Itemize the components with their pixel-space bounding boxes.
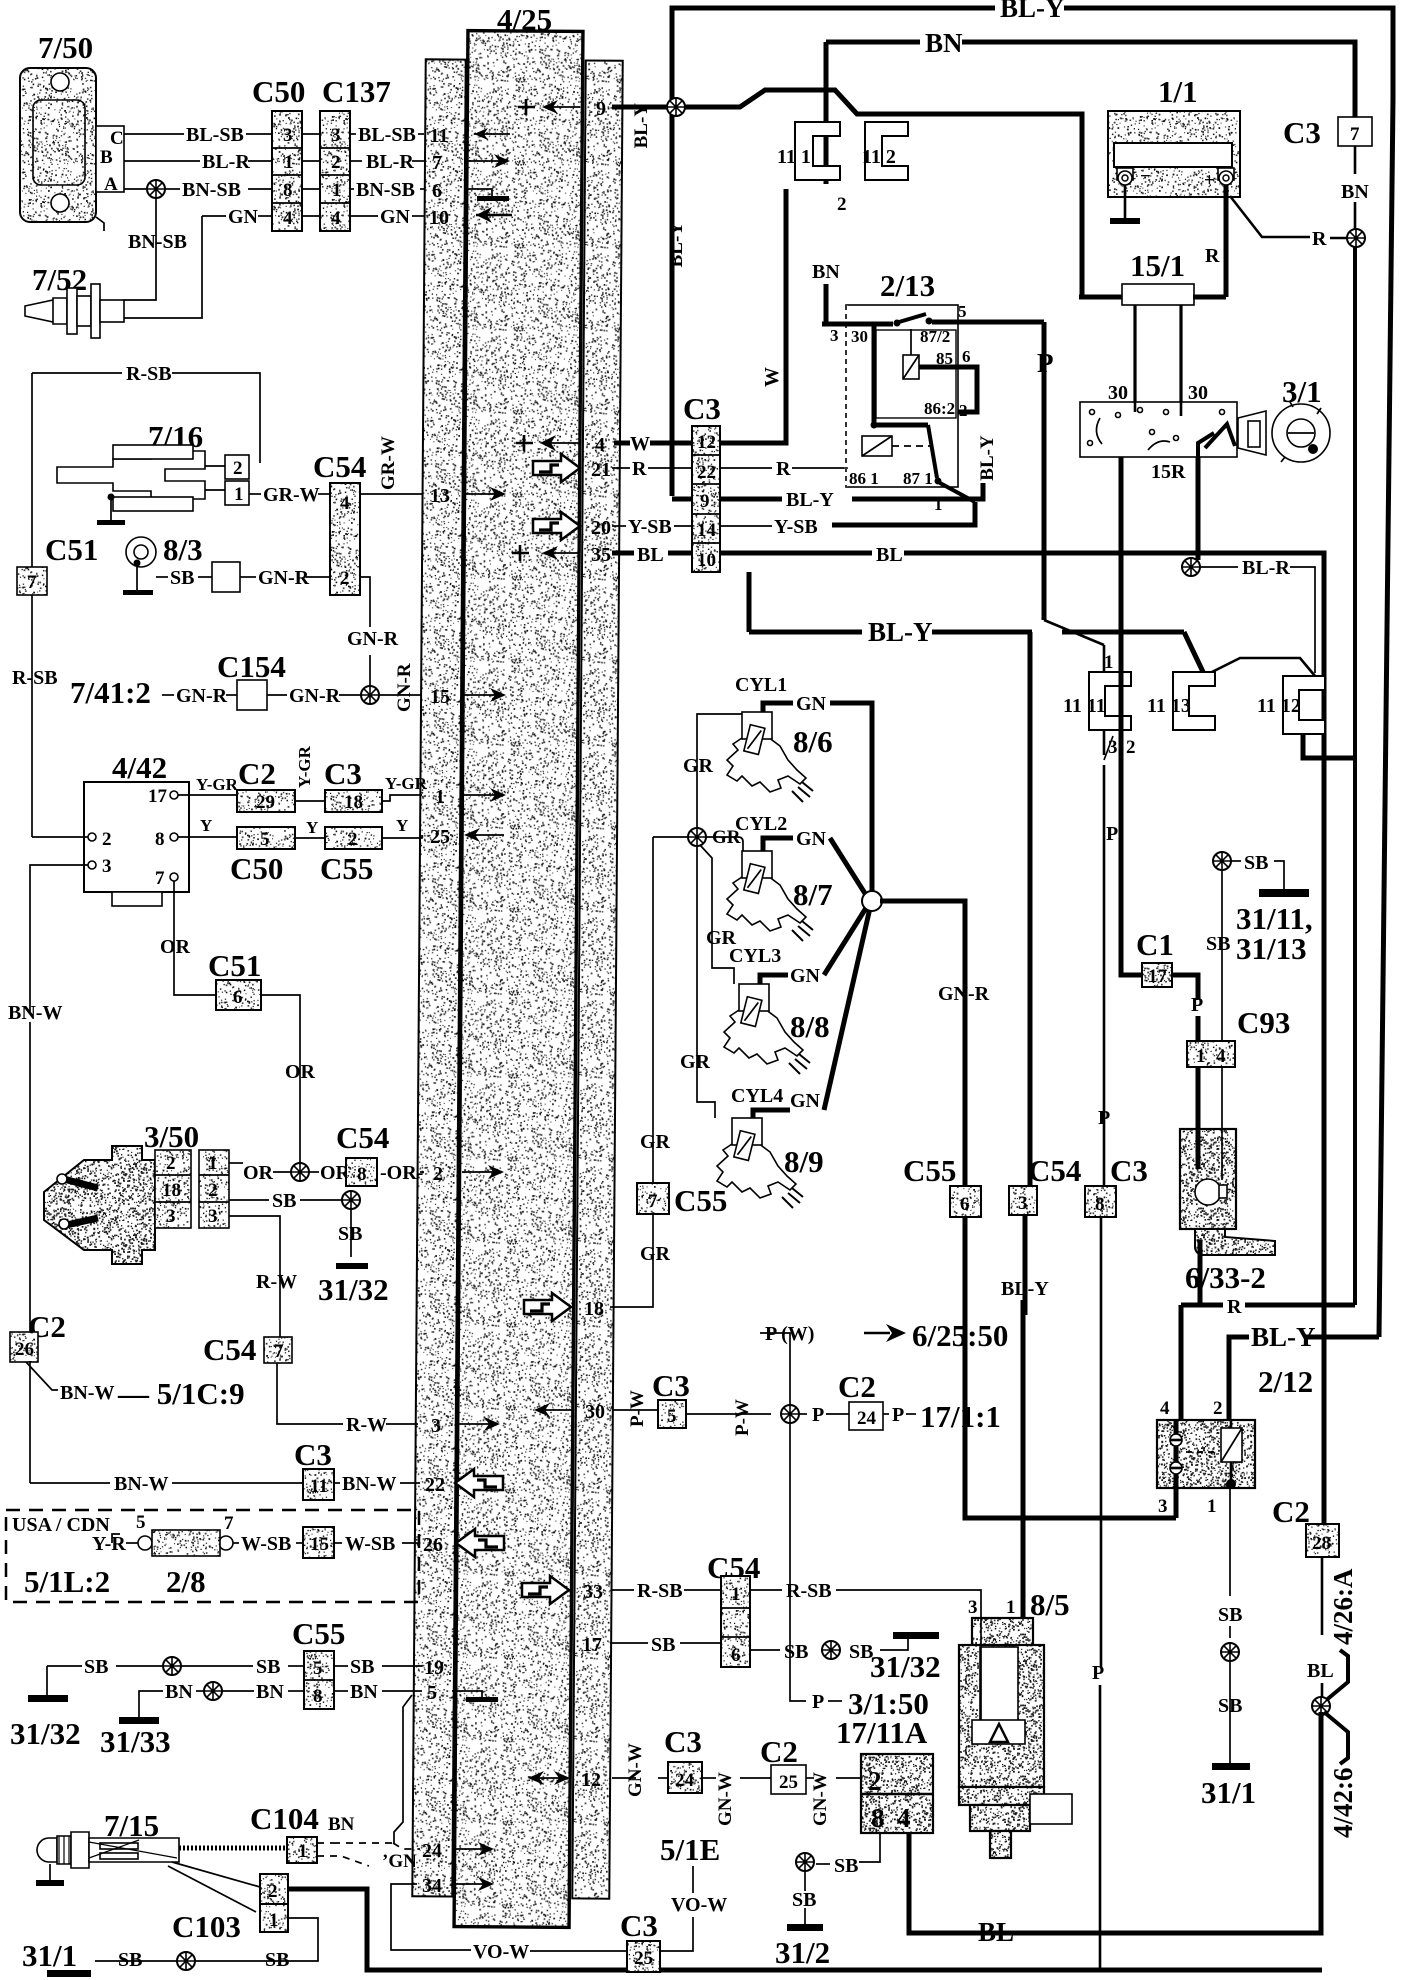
wire GN CYL4 xyxy=(753,1110,790,1118)
svg-text:BL-Y: BL-Y xyxy=(977,435,998,481)
wire SB 2/12 pin1 to ground 31/1 xyxy=(1229,1488,1231,1596)
svg-text:P: P xyxy=(892,1404,904,1426)
relay 2/13 coil upper xyxy=(903,355,919,379)
svg-text:P: P xyxy=(1106,823,1118,845)
wire P-W pin30 to C3-5 xyxy=(612,1409,658,1411)
svg-text:GR-W: GR-W xyxy=(263,484,320,506)
svg-text:7/50: 7/50 xyxy=(38,30,93,65)
wire R C3-22 to relay 2/13 xyxy=(720,467,772,469)
svg-text:R-W: R-W xyxy=(346,1414,387,1436)
wire BL-Y top rail xyxy=(672,8,995,496)
wire BN-W C3 to pin 22 xyxy=(334,1482,340,1484)
ground 31/32 xyxy=(893,1632,939,1639)
connector C54 strip xyxy=(330,483,360,595)
svg-text:28: 28 xyxy=(1312,1533,1331,1554)
fuse 2/8 xyxy=(138,1536,152,1550)
svg-text:1: 1 xyxy=(208,1153,218,1174)
svg-text:— 5/1C:9: — 5/1C:9 xyxy=(117,1376,245,1411)
svg-text:8: 8 xyxy=(871,1803,885,1833)
svg-text:1: 1 xyxy=(234,484,244,505)
svg-text:6: 6 xyxy=(962,347,971,366)
svg-text:GN-W: GN-W xyxy=(625,1743,646,1797)
svg-text:7: 7 xyxy=(274,1341,284,1362)
svg-text:25: 25 xyxy=(779,1772,798,1793)
wire SB pin 17 to C54 xyxy=(610,1642,648,1644)
svg-text:3: 3 xyxy=(968,1597,978,1618)
wire Y-GR C3 to pin 1 xyxy=(382,795,422,801)
svg-text:21: 21 xyxy=(591,459,611,481)
wire BN-W to C3 pin 11 xyxy=(30,1482,110,1484)
svg-text:7: 7 xyxy=(27,572,37,593)
relay 2/13 85 wire xyxy=(919,367,977,412)
wire GR junction left xyxy=(653,836,688,838)
sender 8/3 body xyxy=(126,537,156,567)
wires C50 to C137 xyxy=(302,134,320,216)
wire GN CYL1 xyxy=(763,703,793,712)
key 3/1 bow xyxy=(1238,411,1266,455)
junction P xyxy=(781,1405,799,1423)
wire GR junction down to CYL3 CYL4 xyxy=(697,846,715,1118)
junction OR xyxy=(291,1163,309,1181)
wire GN-R to C154 xyxy=(162,694,174,696)
relay 2/13 87/1 contact xyxy=(928,425,937,478)
svg-text:2/12: 2/12 xyxy=(1258,1364,1313,1399)
svg-text:BL: BL xyxy=(978,1917,1014,1947)
wire BL down to C2-28 xyxy=(1323,1525,1326,1528)
wire P through 11/11 xyxy=(1119,457,1124,732)
ECU left connector strip xyxy=(412,59,465,1896)
svg-text:7: 7 xyxy=(648,1191,658,1212)
connector C51 pin 7 xyxy=(17,567,47,595)
connector C50 strip xyxy=(272,111,302,231)
wire R junction down right side xyxy=(1353,247,1357,1305)
wire GN-R C54 down to junction xyxy=(360,577,370,627)
svg-text:2: 2 xyxy=(268,1881,278,1902)
wire 11/12 down to R line xyxy=(1303,734,1355,758)
wire GN CYL3 xyxy=(760,975,788,984)
wire BL-Y C3-9 to relay 87/1 xyxy=(720,497,782,502)
svg-text:W-SB: W-SB xyxy=(345,1533,395,1555)
injection valve 8/5 wires inside xyxy=(980,1618,982,1724)
wire VO-W C3-25 to 5/1E xyxy=(660,1917,693,1951)
junction BL xyxy=(1312,1697,1330,1715)
svg-text:GR-W: GR-W xyxy=(378,436,399,490)
wire GR-W 7/16 to C54 pin4 xyxy=(249,493,261,495)
wire BL-Y C3 column down xyxy=(747,572,752,632)
svg-text:P: P xyxy=(1098,1107,1110,1129)
3/50 pin column B xyxy=(199,1150,229,1228)
svg-text:SB: SB xyxy=(84,1656,108,1678)
svg-text:5: 5 xyxy=(958,302,967,321)
svg-text:8: 8 xyxy=(283,180,293,201)
svg-text:2: 2 xyxy=(208,1180,218,1201)
connector C3 column boxes 12 22 9 14 10 xyxy=(692,426,720,572)
connector 11/12 xyxy=(1283,676,1325,734)
svg-text:14: 14 xyxy=(697,520,717,541)
svg-text:SB: SB xyxy=(784,1641,808,1663)
svg-text:1: 1 xyxy=(435,786,445,808)
svg-text:7/52: 7/52 xyxy=(32,262,87,297)
wire Y-SB C3-14 to relay xyxy=(720,525,772,527)
svg-text:15R: 15R xyxy=(1151,461,1186,483)
wire SB 3/50 pin2 to junction xyxy=(229,1199,269,1201)
7/16 pin 1 box xyxy=(225,481,249,505)
svg-text:29: 29 xyxy=(256,792,275,813)
fuel pump 6/33-2 body xyxy=(1180,1129,1236,1229)
svg-text:GR: GR xyxy=(640,1243,671,1265)
svg-text:3: 3 xyxy=(102,856,112,877)
wire R-SB C54-1 to 8/5 pin3 xyxy=(750,1589,782,1591)
svg-text:C3: C3 xyxy=(683,391,721,426)
svg-text:Y: Y xyxy=(396,816,408,835)
svg-text:R: R xyxy=(776,458,791,480)
svg-text:1: 1 xyxy=(1006,1597,1016,1618)
wire OR 4/42 pin7 down to C51 xyxy=(174,881,216,995)
wire P-W C3-5 to junction xyxy=(686,1413,771,1415)
connector C2 pin 28 xyxy=(1306,1524,1339,1557)
oxygen sensor 7/15 body xyxy=(37,1838,57,1862)
svg-text:1: 1 xyxy=(332,180,342,201)
svg-text:GR: GR xyxy=(640,1131,671,1153)
svg-text:BN-SB: BN-SB xyxy=(356,179,415,201)
injection valve 8/5 lower parts xyxy=(959,1787,1044,1805)
svg-text:1: 1 xyxy=(934,495,943,514)
svg-text:SB: SB xyxy=(1244,852,1268,874)
svg-text:8/7: 8/7 xyxy=(793,877,833,912)
ignition sensor 3/50 body xyxy=(44,1146,155,1264)
relay 2/13 inner contact box xyxy=(876,330,956,418)
svg-text:3: 3 xyxy=(1158,1496,1168,1517)
svg-text:BN: BN xyxy=(165,1681,193,1703)
svg-text:-OR-: -OR- xyxy=(380,1162,423,1184)
svg-text:SB: SB xyxy=(1218,1604,1242,1626)
ground 31/32 left xyxy=(46,1666,48,1695)
ECU right connector strip xyxy=(572,60,622,1898)
ground 31/1 xyxy=(1212,1763,1250,1770)
wire BN-SB C137 to pin 6 xyxy=(350,188,354,190)
wire BN C3-7 down xyxy=(1354,146,1357,174)
svg-text:26: 26 xyxy=(423,1534,443,1556)
ground 31/33 xyxy=(119,1717,159,1724)
svg-text:GN-R: GN-R xyxy=(176,685,228,707)
svg-text:SB: SB xyxy=(1206,933,1230,955)
svg-text:2/8: 2/8 xyxy=(166,1564,206,1599)
svg-text:8: 8 xyxy=(357,1164,367,1185)
svg-text:4/26:A: 4/26:A xyxy=(1328,1568,1358,1645)
svg-text:8/5: 8/5 xyxy=(1030,1587,1070,1622)
svg-text:GN-W: GN-W xyxy=(715,1772,736,1826)
connector C2 pin 29 xyxy=(237,790,295,812)
shield wire C103 to bottom run xyxy=(288,1889,1322,1970)
ground 31/11 31/13 xyxy=(1259,889,1309,897)
svg-text:6/25:50: 6/25:50 xyxy=(912,1318,1008,1353)
svg-text:BL-Y: BL-Y xyxy=(1001,1278,1049,1300)
svg-text:31/1: 31/1 xyxy=(22,1938,77,1973)
connector C54 pin 3 xyxy=(1009,1186,1037,1215)
svg-text:9: 9 xyxy=(700,491,710,512)
injection valve 8/5 top cap xyxy=(972,1618,1033,1646)
svg-text:30: 30 xyxy=(1108,382,1128,404)
svg-text:A: A xyxy=(104,174,118,195)
junction BL-R xyxy=(1182,558,1200,576)
svg-text:C2: C2 xyxy=(760,1734,798,1769)
wire GN-W C2-25 to 17/11A xyxy=(806,1777,814,1779)
svg-text:11: 11 xyxy=(310,1476,328,1497)
svg-text:1: 1 xyxy=(1104,652,1114,673)
svg-text:2: 2 xyxy=(340,568,350,589)
wire SB chain to C55 pin5 xyxy=(47,1665,82,1667)
injection valve 8/5 body xyxy=(959,1645,1044,1787)
svg-text:17: 17 xyxy=(1148,966,1168,987)
svg-text:BL-R: BL-R xyxy=(366,151,414,173)
svg-text:6: 6 xyxy=(960,1194,970,1215)
svg-text:17: 17 xyxy=(148,786,168,807)
svg-text:R: R xyxy=(632,458,647,480)
svg-text:15: 15 xyxy=(430,686,450,708)
wire R-SB left vertical xyxy=(31,373,33,567)
unit 17/11A box xyxy=(861,1754,933,1833)
svg-text:26: 26 xyxy=(15,1339,34,1360)
wire BL-R to 11/12 xyxy=(1200,566,1238,568)
svg-text:R: R xyxy=(1227,1296,1242,1318)
svg-text:BN: BN xyxy=(328,1814,355,1835)
svg-text:24: 24 xyxy=(675,1770,695,1791)
wire BN-W 4/42 pin3 down-left xyxy=(30,865,88,1012)
svg-text:22: 22 xyxy=(425,1474,445,1496)
wire R-SB top loop xyxy=(32,372,122,374)
wire W C3-12 up to 11/1 xyxy=(720,189,786,443)
svg-text:P-W: P-W xyxy=(627,1390,648,1427)
svg-text:C54: C54 xyxy=(203,1332,256,1367)
connector 11/1 xyxy=(795,122,840,180)
4/42 pin 2 xyxy=(88,833,96,841)
svg-text:6: 6 xyxy=(432,180,442,202)
wire BL 17/11A pin4 down to rail xyxy=(909,1833,972,1933)
svg-text:C3: C3 xyxy=(294,1437,332,1472)
svg-text:CYL3: CYL3 xyxy=(729,945,781,967)
relay 2/13 outline xyxy=(846,305,958,487)
svg-text:CYL4: CYL4 xyxy=(731,1085,783,1107)
wire R down to 2/12 pin4 xyxy=(1179,1305,1184,1420)
wire BL junction down to bottom rail xyxy=(909,1712,1321,1933)
connector 11/13 xyxy=(1173,672,1215,730)
wire BL-SB C137 to pin 11 xyxy=(350,133,356,135)
connector C93 box 1 4 xyxy=(1187,1041,1235,1067)
svg-text:4: 4 xyxy=(595,434,605,456)
svg-text:Y-GR: Y-GR xyxy=(196,775,239,794)
svg-text:P-W: P-W xyxy=(732,1399,753,1436)
wire P (W) branch up to 6/25:50 xyxy=(760,1333,790,1405)
svg-text:1: 1 xyxy=(269,1910,279,1931)
svg-text:2: 2 xyxy=(166,1153,176,1174)
wire P 11/11 down to C1 xyxy=(1121,732,1142,975)
svg-text:C154: C154 xyxy=(217,649,286,684)
svg-text:4/42: 4/42 xyxy=(112,750,167,785)
svg-text:6: 6 xyxy=(731,1645,741,1666)
connector C154 box xyxy=(237,680,267,710)
connector C2 pin 26 xyxy=(10,1332,38,1362)
wire GR-W C54 to pin 13 xyxy=(360,493,422,495)
svg-text:W: W xyxy=(761,367,783,387)
svg-text:20: 20 xyxy=(591,517,611,539)
svg-text:GN-R: GN-R xyxy=(347,628,399,650)
svg-text:BN: BN xyxy=(812,261,840,283)
sensor 7/52 body xyxy=(25,298,67,324)
connector C104 pin 1 xyxy=(287,1837,317,1863)
svg-text:24: 24 xyxy=(857,1408,877,1429)
svg-text:31/32: 31/32 xyxy=(318,1272,389,1307)
svg-text:BN: BN xyxy=(350,1681,378,1703)
svg-text:4: 4 xyxy=(283,208,293,229)
svg-text:R: R xyxy=(1205,245,1220,267)
svg-text:−: − xyxy=(1140,166,1151,187)
svg-text:SB: SB xyxy=(350,1656,374,1678)
svg-text:8/8: 8/8 xyxy=(790,1009,830,1044)
svg-text:Y-SB: Y-SB xyxy=(628,516,672,538)
relay 2/12 coil xyxy=(1221,1428,1242,1462)
svg-text:CYL1: CYL1 xyxy=(735,674,787,696)
svg-text:P (W): P (W) xyxy=(765,1323,814,1345)
svg-text:GN: GN xyxy=(380,206,411,228)
connector C3 pin 7 xyxy=(1338,117,1372,146)
wire SB C55 to pin 19 xyxy=(334,1665,348,1667)
7/15 ground xyxy=(49,1864,51,1880)
svg-text:5: 5 xyxy=(313,1658,323,1679)
wire VO-W pin34 to C3 pin25 xyxy=(391,1884,471,1950)
svg-text:BN: BN xyxy=(925,28,963,58)
svg-text:OR: OR xyxy=(243,1162,274,1184)
svg-text:BL-SB: BL-SB xyxy=(358,124,416,146)
junction SB 31/2 xyxy=(796,1853,814,1871)
svg-text:C50: C50 xyxy=(230,851,283,886)
svg-text:31/1: 31/1 xyxy=(1201,1775,1256,1810)
wire Y-R xyxy=(112,1534,120,1543)
wire P junction to C2-24 xyxy=(799,1413,807,1415)
svg-text:C3: C3 xyxy=(1283,115,1321,150)
svg-text:C51: C51 xyxy=(45,532,98,567)
svg-text:4/42:6: 4/42:6 xyxy=(1328,1768,1358,1839)
wire BL C3-10 to right side xyxy=(720,551,872,556)
svg-text:SB: SB xyxy=(118,1949,142,1971)
svg-text:7/41:2: 7/41:2 xyxy=(70,675,151,710)
wire R battery to ignition switch xyxy=(1224,185,1229,297)
svg-text:SB: SB xyxy=(792,1889,816,1911)
svg-text:3: 3 xyxy=(283,125,293,146)
svg-text:P: P xyxy=(1191,994,1203,1016)
wire SB to ground 31/11 31/13 xyxy=(1231,860,1241,862)
svg-text:C54: C54 xyxy=(313,449,366,484)
svg-text:2: 2 xyxy=(233,458,243,479)
shielded wire 7/15 to C104 xyxy=(179,1846,287,1851)
svg-text:7: 7 xyxy=(155,868,165,889)
svg-text:R-SB: R-SB xyxy=(637,1580,683,1602)
svg-text:31/33: 31/33 xyxy=(100,1724,171,1759)
svg-text:C55: C55 xyxy=(320,851,373,886)
svg-text:W-SB: W-SB xyxy=(241,1533,291,1555)
svg-text:R: R xyxy=(1312,228,1327,250)
svg-text:SB: SB xyxy=(170,567,194,589)
svg-text:10: 10 xyxy=(429,207,449,229)
svg-text:BL-R: BL-R xyxy=(1242,557,1290,579)
dashed region USA/CDN xyxy=(6,1510,419,1602)
fuel pump 6/33-2 foot xyxy=(1195,1229,1275,1255)
ground 31/2 xyxy=(787,1924,823,1931)
svg-text:BN-SB: BN-SB xyxy=(128,231,187,253)
svg-text:BL-Y: BL-Y xyxy=(666,222,687,268)
svg-text:Y-GR: Y-GR xyxy=(295,745,314,788)
svg-text:VO-W: VO-W xyxy=(671,1894,727,1916)
svg-text:11 2: 11 2 xyxy=(862,146,896,168)
svg-text:GN-R: GN-R xyxy=(394,663,415,712)
connector C54 pin 8 xyxy=(346,1158,377,1186)
svg-text:4: 4 xyxy=(1216,1046,1226,1067)
svg-text:SB: SB xyxy=(1218,1695,1242,1717)
svg-text:11 13: 11 13 xyxy=(1147,695,1191,717)
junction SB xyxy=(342,1191,360,1209)
junction BL-Y pin 9 xyxy=(612,105,672,110)
wire BL C2-28 down xyxy=(1321,1557,1324,1635)
svg-text:OR: OR xyxy=(285,1061,316,1083)
svg-text:3: 3 xyxy=(331,125,341,146)
svg-text:4: 4 xyxy=(331,208,341,229)
connector C3 pin 8 xyxy=(1085,1186,1116,1217)
junction R xyxy=(1347,229,1365,247)
wire Y-SB pin20 to C3-14 xyxy=(612,525,626,527)
battery positive terminal xyxy=(1218,168,1234,180)
svg-text:BL: BL xyxy=(637,544,664,566)
wire GN-R junction to pin 15 xyxy=(379,694,422,696)
wire GN-R C55-6 down to 2/12 pin3 xyxy=(965,1217,1176,1518)
svg-text:BL-SB: BL-SB xyxy=(186,124,244,146)
wire GN-W pin12 to C3-24 xyxy=(612,1777,636,1779)
svg-text:GN-R: GN-R xyxy=(258,567,310,589)
7/50 pin block xyxy=(96,126,124,192)
wire P long vertical xyxy=(1103,645,1106,755)
svg-text:C: C xyxy=(110,128,124,149)
svg-text:SB: SB xyxy=(265,1949,289,1971)
svg-text:C103: C103 xyxy=(172,1909,241,1944)
wire GN-R node to C55-6 xyxy=(880,901,965,1186)
svg-text:1: 1 xyxy=(1207,1496,1217,1517)
wire BL-Y branch down to C54-3 xyxy=(1028,632,1033,1186)
svg-text:11 1: 11 1 xyxy=(777,146,811,168)
svg-text:CYL2: CYL2 xyxy=(735,813,787,835)
connector C51 pin 6 xyxy=(216,980,261,1010)
wire BN-SB 7/50 to C50 pin8 xyxy=(124,188,146,190)
svg-text:2: 2 xyxy=(102,829,112,850)
connector C3 pin 25 xyxy=(627,1941,660,1972)
svg-text:BN-SB: BN-SB xyxy=(182,179,241,201)
svg-text:5/1L:2: 5/1L:2 xyxy=(24,1564,110,1599)
svg-text:3: 3 xyxy=(1018,1193,1028,1214)
svg-text:GN: GN xyxy=(790,1090,821,1112)
svg-text:18: 18 xyxy=(344,792,363,813)
svg-text:SB: SB xyxy=(256,1656,280,1678)
connector C54 strip pins 1 6 xyxy=(721,1576,750,1667)
svg-text:R-W: R-W xyxy=(256,1271,297,1293)
svg-text:86:2: 86:2 xyxy=(924,399,955,418)
svg-text:4: 4 xyxy=(897,1803,911,1833)
svg-text:3/50: 3/50 xyxy=(144,1119,199,1154)
wire GN C137 to pin 10 xyxy=(350,215,378,217)
svg-text:18: 18 xyxy=(584,1298,604,1320)
wire 11/11 pin3 diagonal to P xyxy=(1104,736,1113,760)
connector 11/2 xyxy=(865,122,908,180)
wires 7/15 to C103 xyxy=(168,1862,260,1912)
connector C3 pin 18 xyxy=(325,790,382,812)
svg-text:2: 2 xyxy=(1213,1398,1223,1419)
wire P C1 to C93 xyxy=(1172,975,1198,1000)
